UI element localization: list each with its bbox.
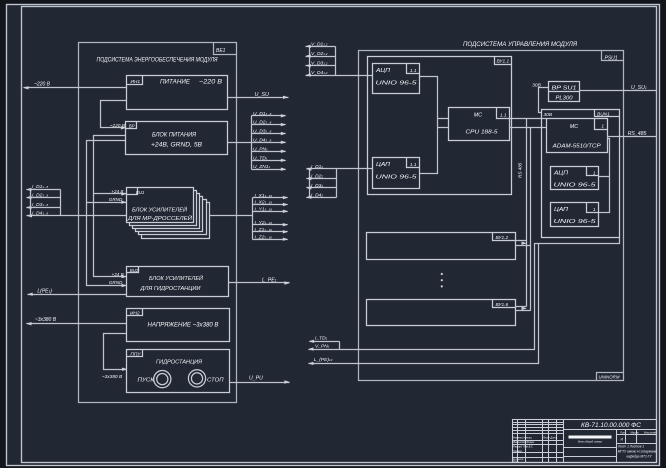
svg-text:МГТУ имени Н.Э.Баумана: МГТУ имени Н.Э.Баумана	[618, 450, 657, 454]
svg-text:PL300: PL300	[556, 96, 573, 102]
svg-text:Изменой месяц: Изменой месяц	[513, 436, 532, 440]
svg-text:UNIO 96-5: UNIO 96-5	[554, 182, 598, 188]
svg-text:RS 485: RS 485	[518, 162, 523, 178]
svg-text:PSU1: PSU1	[605, 55, 618, 61]
svg-text:~220 В: ~220 В	[199, 80, 222, 86]
svg-text:ПИТАНИЕ: ПИТАНИЕ	[160, 80, 191, 86]
svg-text:Лист 1 Листов 1: Лист 1 Листов 1	[617, 444, 644, 448]
svg-text:МС: МС	[570, 124, 578, 130]
svg-text:V_PN1: V_PN1	[315, 344, 330, 350]
svg-text:~3х380 В: ~3х380 В	[35, 317, 57, 323]
svg-text:+24 В: +24 В	[111, 189, 123, 194]
svg-text:ИН1: ИН1	[131, 79, 141, 85]
svg-text:БЛОК УСИЛИТЕЛЕЙ: БЛОК УСИЛИТЕЛЕЙ	[149, 274, 203, 282]
svg-text:МС: МС	[474, 113, 482, 119]
svg-text:CPU 188-5: CPU 188-5	[466, 130, 499, 136]
svg-text:30В: 30В	[532, 83, 541, 89]
svg-text:БЛОК ПИТАНИЯ: БЛОК ПИТАНИЯ	[152, 132, 197, 138]
svg-text:Лист Дата: Лист Дата	[542, 436, 558, 440]
svg-text:BP SU1: BP SU1	[552, 86, 577, 92]
svg-text:АЦП: АЦП	[553, 171, 568, 177]
svg-text:UNINORM: UNINORM	[599, 375, 620, 380]
svg-text:Лит.: Лит.	[619, 431, 627, 435]
svg-text:U_SU: U_SU	[255, 92, 269, 98]
svg-text:кафедра МТ1-ГУ: кафедра МТ1-ГУ	[626, 455, 652, 459]
svg-text:НАПРЯЖЕНИЕ ~3х380 В: НАПРЯЖЕНИЕ ~3х380 В	[148, 322, 219, 328]
svg-text:L_PE1: L_PE1	[262, 277, 277, 283]
svg-text:UNIO 96-5: UNIO 96-5	[376, 175, 419, 181]
svg-text:ВУ1.1: ВУ1.1	[497, 59, 510, 65]
svg-text:BU1: BU1	[136, 190, 145, 195]
svg-text:U_SU1: U_SU1	[631, 85, 647, 91]
svg-text:BU2: BU2	[130, 268, 139, 273]
svg-text:КВ-71.10.00.000 ФС: КВ-71.10.00.000 ФС	[581, 422, 642, 429]
svg-text:1: 1	[593, 170, 596, 176]
svg-text:L(PE1): L(PE1)	[37, 289, 52, 295]
svg-text:ВЕ1: ВЕ1	[216, 48, 226, 54]
svg-text:ДЛЯ ГИДРОСТАНЦИИ: ДЛЯ ГИДРОСТАНЦИИ	[139, 286, 200, 292]
svg-text:BUN1: BUN1	[597, 112, 610, 118]
svg-text:1.1: 1.1	[410, 68, 417, 74]
svg-text:U_PU: U_PU	[249, 376, 263, 382]
svg-text:СТОП: СТОП	[207, 378, 224, 384]
svg-text:GRND: GRND	[109, 280, 123, 285]
svg-text:1.1: 1.1	[500, 112, 507, 118]
svg-text:ИН2: ИН2	[130, 311, 140, 317]
svg-text:Провер.: Провер.	[513, 449, 523, 453]
svg-text:UNIO 96-5: UNIO 96-5	[554, 219, 598, 225]
svg-text:ДЛЯ МР-ДРОССЕЛЕЙ: ДЛЯ МР-ДРОССЕЛЕЙ	[127, 214, 192, 222]
svg-text:1: 1	[601, 124, 604, 130]
svg-text:~220 В: ~220 В	[110, 123, 126, 129]
svg-text:Фамилия№докум.: Фамилия№докум.	[513, 440, 535, 444]
svg-text:ЦАП: ЦАП	[554, 207, 568, 213]
svg-text:ПОДСИСТЕМА УПРАВЛЕНИЯ МОДУЛЯ: ПОДСИСТЕМА УПРАВЛЕНИЯ МОДУЛЯ	[463, 41, 578, 48]
svg-text:АЦП: АЦП	[375, 68, 390, 74]
svg-text:ВУ1.2: ВУ1.2	[496, 235, 509, 241]
svg-text:1.1: 1.1	[410, 162, 417, 168]
svg-text:Масса: Масса	[631, 431, 639, 435]
svg-text:Масштаб: Масштаб	[644, 431, 657, 435]
svg-text:БЛОК УСИЛИТЕЛЕЙ: БЛОК УСИЛИТЕЛЕЙ	[132, 205, 187, 213]
svg-text:RS_485: RS_485	[628, 131, 647, 137]
svg-text:ГИДРОСТАНЦИЯ: ГИДРОСТАНЦИЯ	[156, 359, 202, 365]
svg-text:30В: 30В	[544, 112, 553, 118]
svg-text:ADAM-5510/TCP: ADAM-5510/TCP	[552, 144, 602, 150]
svg-text:Разраб. Под В.С: Разраб. Под В.С	[513, 445, 533, 449]
svg-text:ПУСК: ПУСК	[138, 378, 155, 384]
svg-text:U_TD1: U_TD1	[253, 155, 268, 161]
svg-text:Утв.: Утв.	[513, 459, 519, 463]
svg-text:U_ZN11: U_ZN11	[253, 164, 271, 170]
svg-text:блок общей схемы: блок общей схемы	[578, 440, 602, 444]
svg-text:1: 1	[593, 207, 596, 213]
svg-text:BP: BP	[129, 123, 135, 128]
svg-text:ЦАП: ЦАП	[376, 162, 390, 168]
svg-text:+24В, GRND, 5В: +24В, GRND, 5В	[151, 143, 202, 149]
svg-text:ППУ: ППУ	[130, 352, 141, 358]
svg-text:GRND: GRND	[109, 197, 123, 202]
svg-text:UNIO 96-5: UNIO 96-5	[376, 80, 419, 86]
svg-text:ВУ1.6: ВУ1.6	[496, 302, 509, 308]
svg-text:~220 В: ~220 В	[34, 82, 51, 88]
svg-text:ПОДСИСТЕМА ЭНЕРГООБЕСПЕЧЕНИЯ М: ПОДСИСТЕМА ЭНЕРГООБЕСПЕЧЕНИЯ МОДУЛЯ	[97, 57, 219, 64]
svg-text:+24 В: +24 В	[112, 272, 124, 277]
svg-text:~3х380 В: ~3х380 В	[102, 374, 123, 380]
svg-text:U_PN1: U_PN1	[253, 146, 268, 152]
